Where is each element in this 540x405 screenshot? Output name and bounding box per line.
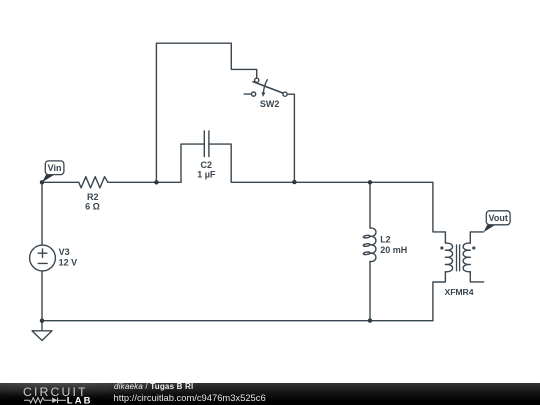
wire transformer primary bottom lead [433, 272, 446, 321]
wire capacitor left branch up [181, 144, 204, 182]
wire V3 bottom to ground node [41, 271, 43, 321]
svg-text:1 µF: 1 µF [197, 169, 216, 179]
svg-text:6 Ω: 6 Ω [85, 202, 100, 212]
transformer XFMR4 primary winding [445, 243, 452, 272]
wire switch open throw stub [244, 93, 251, 95]
wire switch loop: node A up, across, down to switch pole [156, 43, 256, 182]
transformer XFMR4 primary phase dot [440, 246, 443, 249]
wire capacitor right branch down [209, 144, 231, 182]
transformer XFMR4 core [457, 245, 460, 271]
svg-text:C2: C2 [201, 160, 213, 170]
wire transformer secondary bottom lead stub [470, 272, 483, 282]
inductor L2 [363, 228, 376, 262]
svg-text:20 mH: 20 mH [380, 245, 407, 255]
voltage source V3 [30, 245, 56, 271]
capacitor C2 plates [204, 131, 209, 157]
flag Vin [42, 161, 64, 182]
svg-text:XFMR4: XFMR4 [445, 287, 474, 297]
svg-text:Vout: Vout [489, 213, 508, 223]
svg-text:12 V: 12 V [59, 257, 78, 267]
svg-text:LAB: LAB [67, 395, 93, 405]
svg-text:V3: V3 [59, 247, 70, 257]
transformer XFMR4 secondary phase dot [472, 246, 475, 249]
CircuitLab logo [0, 384, 100, 405]
wire V3 top [41, 182, 43, 245]
wire Vin node: anchor to resistor [42, 181, 79, 183]
node A junction [154, 180, 158, 184]
wire capacitor right branch to node B and on to transformer drop [231, 181, 433, 183]
transformer XFMR4 secondary winding [463, 243, 470, 272]
node: L2 top junction [368, 180, 372, 184]
wire transformer secondary top lead to Vout anchor [470, 232, 483, 243]
switch SW2 [252, 78, 288, 97]
node: Vin anchor junction [40, 180, 44, 184]
node B junction [292, 180, 296, 184]
wire node A to capacitor left branch [156, 181, 181, 183]
svg-text:Vin: Vin [48, 163, 62, 173]
flag Vout [483, 211, 510, 232]
wire transformer primary top lead [433, 182, 446, 243]
wire L2 top branch [369, 182, 371, 228]
svg-text:SW2: SW2 [260, 99, 280, 109]
wire bottom rail [42, 320, 433, 322]
ground [32, 321, 52, 341]
node: ground junction [40, 319, 44, 323]
footer caption text [114, 382, 193, 391]
node: L2 bottom junction [368, 318, 372, 322]
wire resistor to node A [108, 181, 156, 183]
footer bar [0, 383, 540, 405]
wire switch throw C to node B drop [287, 94, 294, 182]
wire L2 bottom branch [369, 262, 371, 321]
svg-text:L2: L2 [380, 235, 391, 245]
svg-text:R2: R2 [87, 192, 99, 202]
resistor R2 [79, 177, 108, 188]
